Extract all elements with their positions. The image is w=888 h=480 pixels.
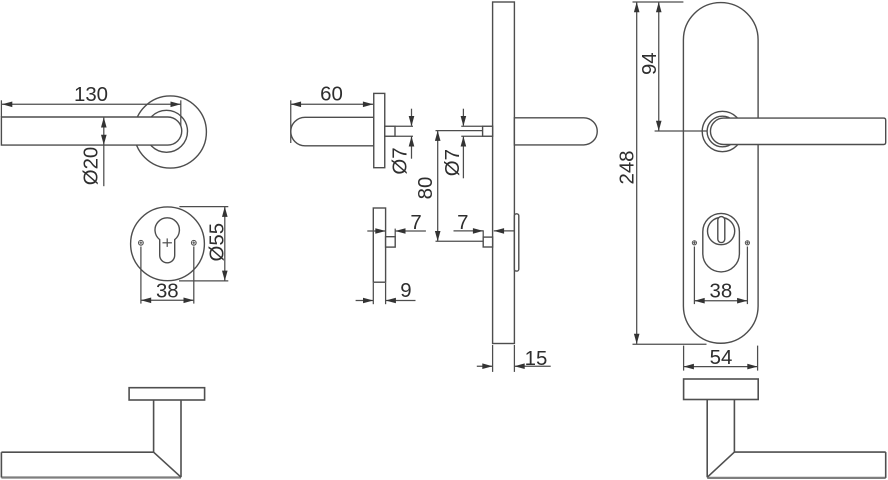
svg-text:Ø55: Ø55 <box>207 223 229 262</box>
svg-text:38: 38 <box>156 280 179 302</box>
svg-text:130: 130 <box>74 84 108 106</box>
svg-text:9: 9 <box>400 280 411 302</box>
svg-text:Ø20: Ø20 <box>80 147 102 186</box>
svg-text:80: 80 <box>415 177 437 200</box>
svg-text:60: 60 <box>320 84 343 106</box>
svg-text:7: 7 <box>457 212 468 234</box>
svg-text:94: 94 <box>639 52 661 75</box>
svg-text:Ø7: Ø7 <box>442 149 464 176</box>
svg-text:38: 38 <box>710 281 733 303</box>
svg-text:248: 248 <box>617 150 639 184</box>
svg-text:7: 7 <box>410 212 421 234</box>
svg-text:54: 54 <box>710 347 733 369</box>
svg-text:Ø7: Ø7 <box>390 147 412 174</box>
svg-text:15: 15 <box>525 348 548 370</box>
